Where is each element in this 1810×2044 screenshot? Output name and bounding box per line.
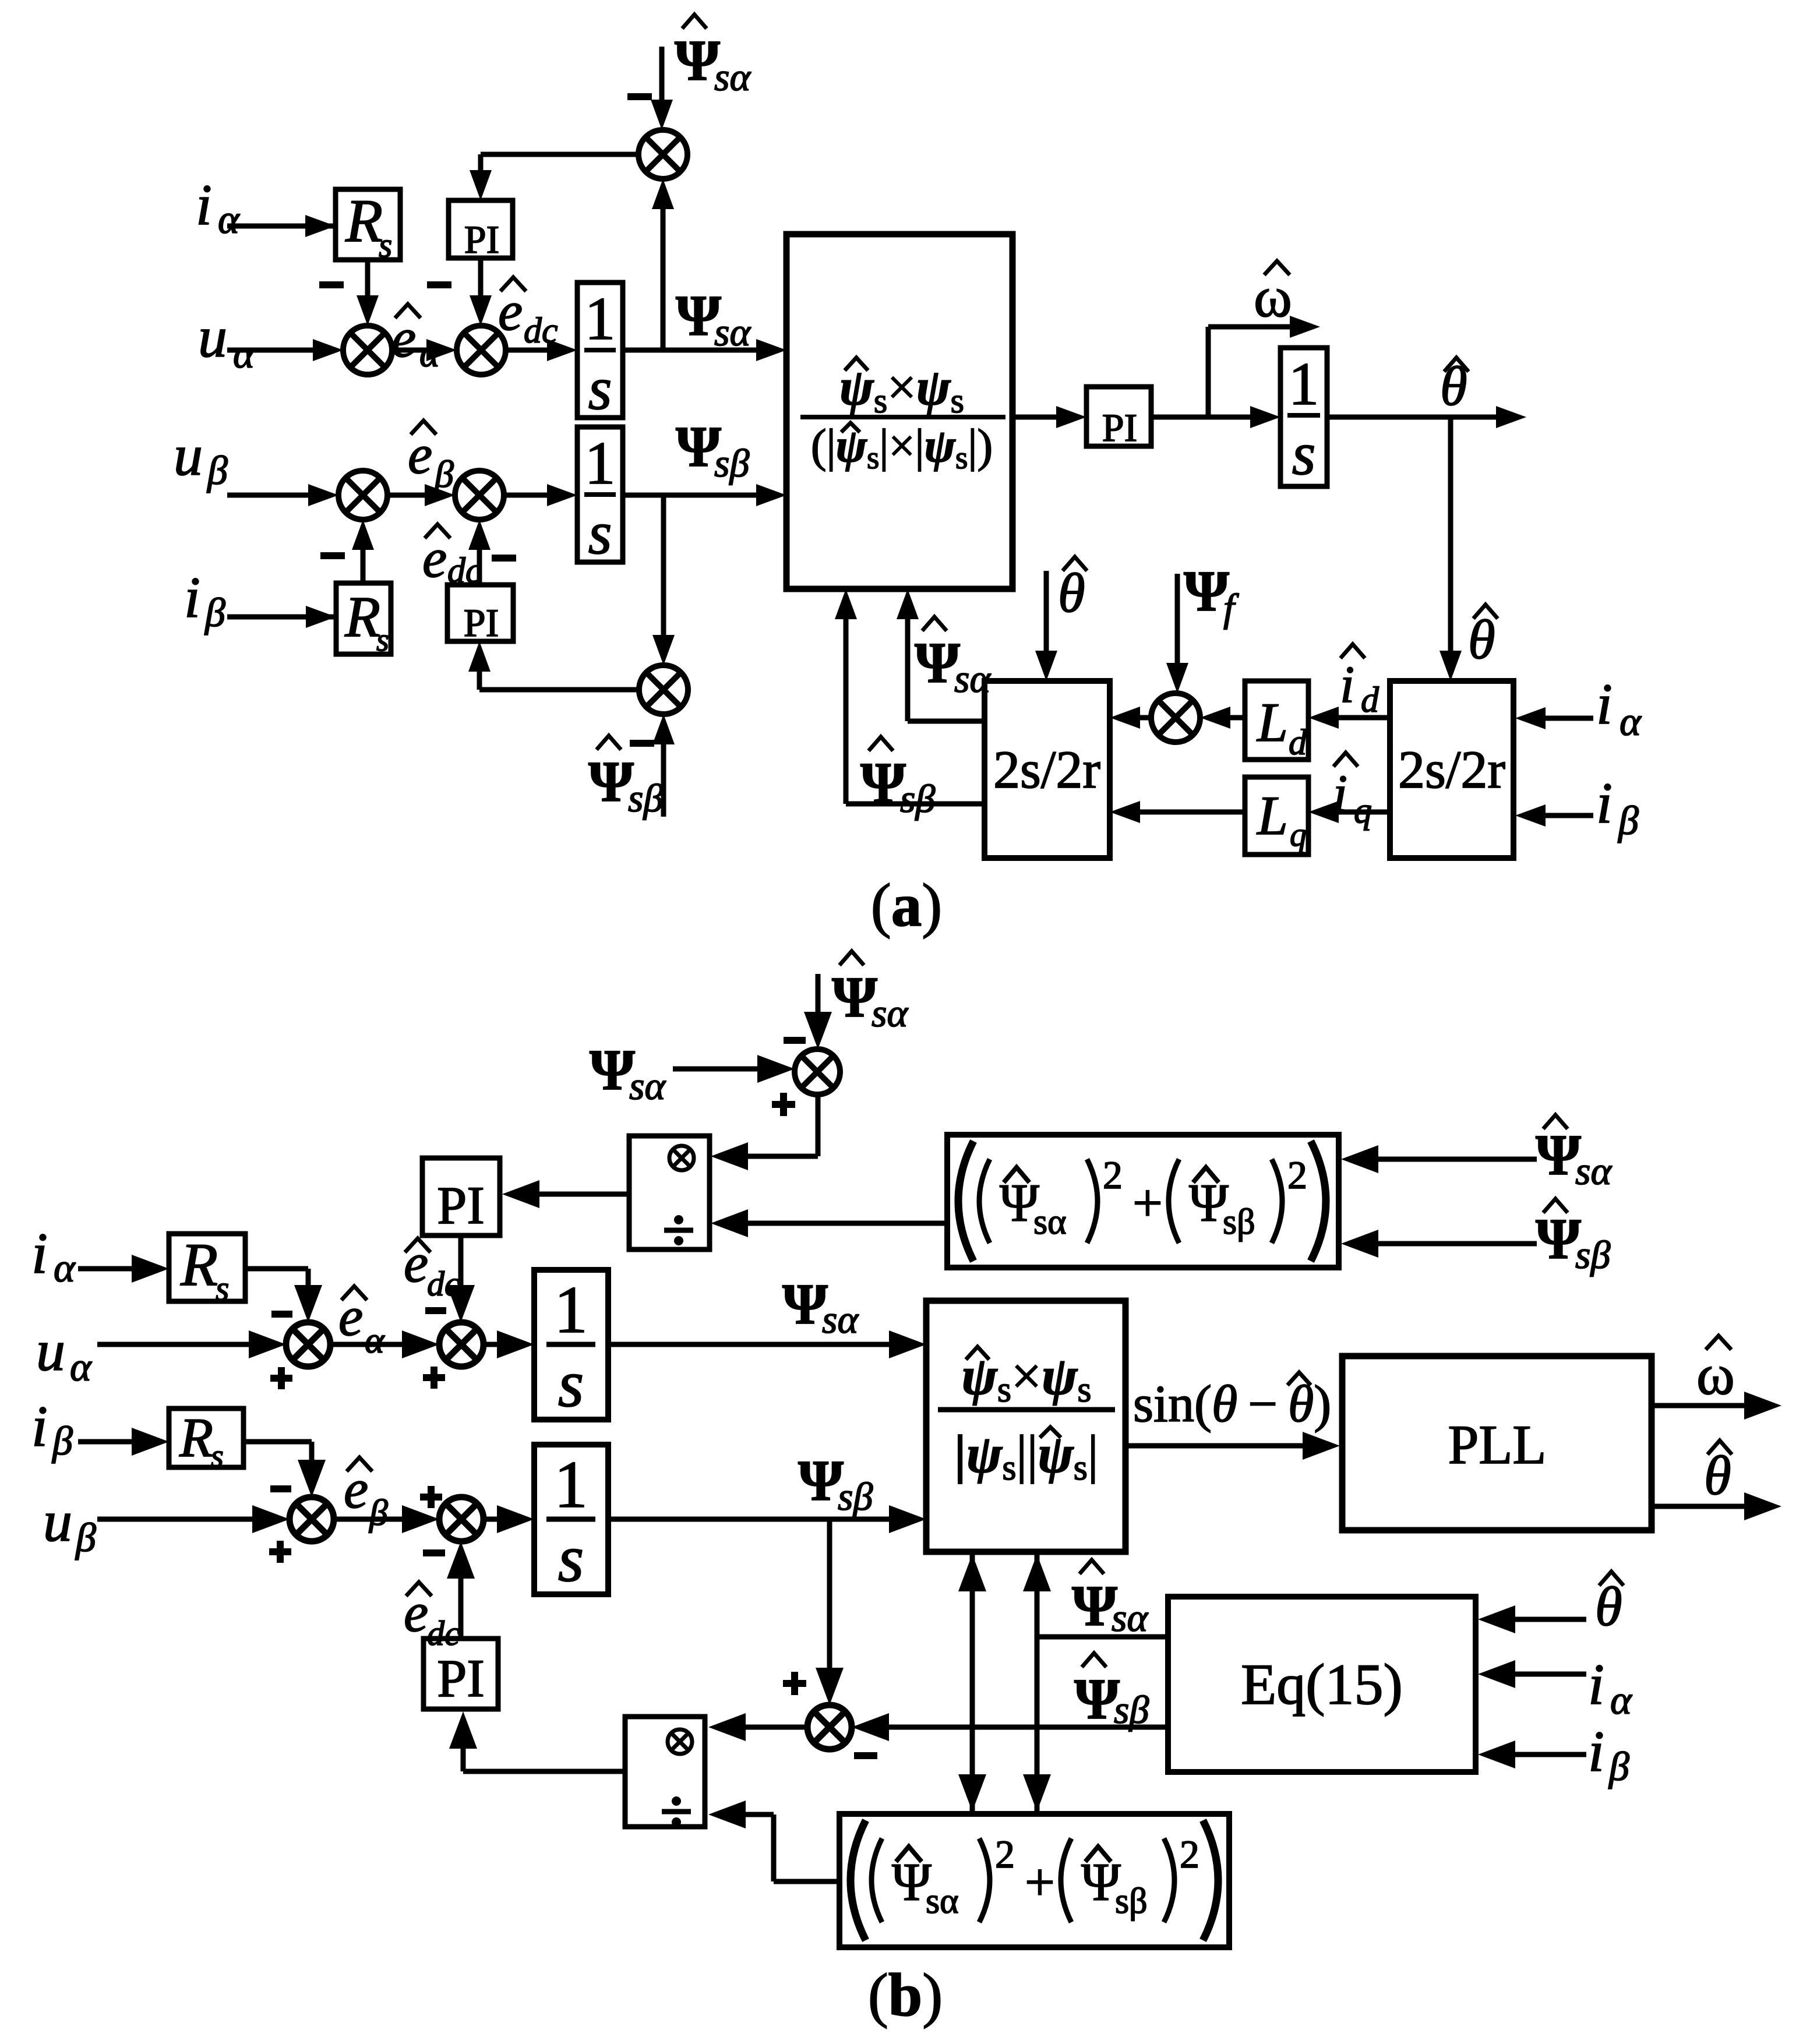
svg-text:i: i — [1596, 771, 1613, 835]
svg-text:1: 1 — [585, 284, 616, 352]
svg-text:Ψ: Ψ — [832, 965, 877, 1029]
svg-text:R: R — [344, 584, 380, 649]
block integrator 1/s (a,alpha) — [577, 283, 623, 418]
wire Rs3 right then down into S6, minus — [245, 1266, 308, 1272]
block PI1 (a) — [449, 200, 513, 258]
svg-text:i: i — [1588, 1652, 1604, 1717]
svg-text:α: α — [218, 197, 240, 242]
svg-text:i: i — [1596, 672, 1613, 736]
svg-text:sα: sα — [1575, 1149, 1612, 1193]
summing junction S1 (a) — [343, 326, 392, 375]
block integrator 1/s (a,theta) — [1280, 348, 1327, 486]
svg-text:Ψ: Ψ — [915, 630, 960, 695]
svg-text:β: β — [368, 1492, 388, 1533]
svg-text:sα: sα — [926, 1881, 959, 1921]
svg-text:α: α — [1620, 700, 1642, 744]
svg-text:α: α — [1610, 1678, 1632, 1723]
wire i_alpha into Eq(15) — [1513, 1672, 1586, 1677]
wire u_beta into S8, plus — [97, 1517, 257, 1522]
svg-text:θ: θ — [1468, 609, 1495, 670]
wire S2 to integrator 1/s (a,alpha) — [506, 348, 549, 353]
svg-text:PI: PI — [437, 1648, 485, 1708]
summing junction S9 (b) — [439, 1497, 484, 1541]
block magnitude squared sum (b top) — [947, 1135, 1339, 1268]
block PI (b top) — [422, 1158, 500, 1235]
svg-text:α: α — [233, 332, 255, 377]
node branch theta_hat down to 2s/2r — [1448, 417, 1453, 656]
wire psi_hat_s_alpha from left 2s/2r up into big block — [908, 719, 985, 724]
summing junction S3 (a) — [338, 471, 387, 520]
summing junction S4 (a) — [455, 471, 504, 520]
svg-text:d: d — [1361, 680, 1379, 720]
wire sin output to PLL — [1125, 1443, 1305, 1449]
wire i_beta into right 2s/2r — [1546, 813, 1593, 818]
node junction psi_s_beta down to S10, plus — [827, 1519, 832, 1669]
svg-text:Ψ: Ψ — [588, 749, 634, 814]
block Rs1 stator resistance — [336, 189, 400, 260]
block Rs2 stator resistance — [336, 583, 391, 654]
block integrator 1/s (b,alpha) — [534, 1270, 608, 1420]
svg-text:dc: dc — [427, 1614, 460, 1653]
svg-text:sβ: sβ — [714, 441, 749, 485]
block magnitude squared sum (b bottom) — [839, 1814, 1229, 1947]
block divider 2 (X over divide) — [625, 1717, 705, 1827]
svg-text:Ψ: Ψ — [1072, 1573, 1117, 1638]
svg-text:i: i — [196, 172, 212, 237]
wire psi_s_beta into flux comparator block (b) — [608, 1517, 892, 1522]
summing junction S10 (b) — [807, 1705, 852, 1749]
svg-text:2s/2r: 2s/2r — [1398, 740, 1505, 799]
node branch omega_hat, wire up and right — [1206, 327, 1211, 417]
svg-text:2: 2 — [1287, 1153, 1307, 1197]
block Ld inductance — [1245, 681, 1308, 760]
svg-text:PI: PI — [464, 217, 499, 262]
riser psi_hat_s_alpha double arrow (big block to sqrt2) — [1035, 1552, 1040, 1814]
svg-text:2: 2 — [995, 1832, 1015, 1876]
svg-text:+: + — [1025, 1852, 1055, 1912]
svg-text:q: q — [1290, 816, 1307, 853]
block Lq inductance — [1245, 777, 1308, 855]
svg-text:i: i — [1340, 656, 1354, 714]
wire S7 to integrator (b,alpha) — [484, 1342, 513, 1347]
wire S3 to S4 — [387, 493, 427, 498]
svg-text:Ψ: Ψ — [675, 28, 720, 93]
svg-text:ω: ω — [1254, 264, 1292, 329]
wire Rs2 up to S3, minus — [361, 544, 366, 583]
block Eq(15) — [1168, 1597, 1476, 1772]
svg-text:R: R — [180, 1230, 218, 1298]
riser psi_hat_s_beta double arrow (big block to sqrt2) — [970, 1552, 975, 1814]
svg-text:s: s — [588, 354, 612, 422]
wire psi_hat_s_alpha down into S5, minus — [816, 974, 821, 1014]
svg-text:1: 1 — [554, 1273, 588, 1347]
block Rs4 stator resistance (b) — [169, 1408, 244, 1467]
block Rs3 stator resistance (b) — [169, 1234, 245, 1301]
svg-text:i: i — [184, 565, 200, 630]
svg-text:sβ: sβ — [1575, 1233, 1610, 1277]
svg-text:s: s — [1292, 419, 1316, 488]
summing junction S5 (b) — [795, 1049, 840, 1095]
summing junction S8 (b) — [290, 1497, 334, 1541]
wire theta_hat down into left 2s/2r — [1044, 571, 1049, 656]
wire right 2s/2r to Ld — [1339, 715, 1390, 721]
wire psi_hat_s_alpha down into M1, minus — [659, 47, 665, 102]
svg-text:i: i — [31, 1221, 48, 1286]
wire u_alpha to sum S1 — [227, 348, 315, 353]
svg-text:α: α — [54, 1246, 76, 1291]
svg-text:d: d — [1289, 723, 1307, 762]
svg-text:sβ: sβ — [628, 776, 663, 820]
wire S9 to integrator (b,beta) — [484, 1517, 513, 1522]
svg-text:e: e — [338, 1286, 363, 1347]
svg-text:sα: sα — [954, 656, 991, 701]
svg-text:sβ: sβ — [1114, 1688, 1149, 1732]
summing junction S2 (a) — [457, 326, 506, 375]
wire right 2s/2r to Lq — [1339, 810, 1390, 815]
svg-text:β: β — [204, 591, 225, 636]
svg-text:L: L — [1256, 691, 1288, 753]
block PI3 speed regulator (a) — [1086, 387, 1151, 446]
block left 2s/2r transform (a) — [985, 681, 1110, 858]
wire psi_hat_s_beta up into M4, minus — [661, 739, 666, 817]
summing junction S7 (b), plus — [439, 1322, 484, 1367]
svg-text:β: β — [206, 449, 228, 493]
svg-text:ψs×ψs: ψs×ψs — [839, 359, 964, 420]
wire divider 2 output left and up into PI (b bottom) — [463, 1769, 625, 1774]
svg-text:sα: sα — [714, 55, 751, 99]
svg-text:PI: PI — [1102, 405, 1137, 450]
svg-text:α: α — [70, 1345, 92, 1390]
block integrator 1/s (a,beta) — [577, 427, 623, 562]
wire big block (a) to PI3 — [1012, 415, 1059, 420]
svg-text:+: + — [1132, 1173, 1163, 1233]
svg-text:dc: dc — [447, 551, 482, 591]
wire i_alpha to Rs3 — [78, 1266, 136, 1272]
svg-text:α: α — [365, 1319, 385, 1361]
wire S10 output into divider 2 X input — [746, 1725, 807, 1730]
svg-text:R: R — [345, 186, 383, 255]
svg-text:ω: ω — [1696, 1342, 1735, 1407]
wire PI (b top) down to S7, minus — [458, 1235, 464, 1287]
wire Eq15 psi_hat_s_beta output to S10 — [866, 1725, 1168, 1730]
svg-text:β: β — [75, 1516, 96, 1561]
wire psi_hat_s_alpha into sqrt1 (b) — [1376, 1157, 1537, 1162]
wire theta_hat output right (a) — [1327, 415, 1498, 420]
svg-text:Ψ: Ψ — [798, 1448, 844, 1513]
wire sqrt block 1 output to divider 1 divide input — [748, 1221, 947, 1226]
svg-text:1: 1 — [1289, 350, 1319, 418]
wire Lq to left 2s/2r — [1140, 810, 1245, 815]
svg-text:(a): (a) — [871, 871, 942, 939]
svg-text:1: 1 — [585, 429, 616, 497]
wire u_beta to sum S3 — [227, 493, 311, 498]
svg-text:s: s — [558, 1347, 584, 1421]
wire i_alpha into right 2s/2r — [1546, 716, 1593, 721]
wire S4 to integrator (a,beta) — [504, 493, 549, 498]
svg-text:2s/2r: 2s/2r — [993, 740, 1100, 799]
wire M1 output left then down to PI1 — [481, 152, 638, 157]
block flux cross-product normalizer (a) — [786, 234, 1012, 589]
wire S5 down and left into divider block X input — [816, 1095, 821, 1156]
svg-text:Ψ: Ψ — [782, 1272, 828, 1336]
svg-text:s: s — [376, 622, 389, 658]
summing junction S6 (b) — [286, 1322, 330, 1367]
svg-text:sα: sα — [1033, 1202, 1067, 1242]
wire S1 to S2 — [392, 348, 429, 353]
wire i_beta to Rs2 — [227, 615, 336, 620]
svg-text:Ψ: Ψ — [1184, 559, 1229, 623]
svg-text:1: 1 — [554, 1448, 588, 1521]
svg-text:Ψ: Ψ — [860, 750, 906, 815]
svg-text:dc: dc — [427, 1265, 460, 1303]
svg-text:s: s — [216, 1269, 229, 1308]
wire i_alpha to Rs1 — [227, 224, 336, 229]
svg-text:2: 2 — [1180, 1832, 1199, 1876]
node junction alpha, riser to multiplier M1 — [661, 203, 666, 350]
svg-text:sβ: sβ — [1115, 1881, 1148, 1921]
wire i_beta into Eq(15) — [1513, 1752, 1586, 1757]
wire into S10 right, minus — [852, 1713, 889, 1741]
svg-text:sβ: sβ — [1223, 1202, 1255, 1242]
svg-text:s: s — [588, 499, 612, 567]
wire S6 to S7 — [330, 1342, 408, 1347]
svg-text:β: β — [51, 1419, 73, 1464]
svg-text:Ψ: Ψ — [1536, 1206, 1581, 1271]
svg-text:Eq(15): Eq(15) — [1241, 1652, 1403, 1717]
svg-text:sα: sα — [822, 1297, 859, 1342]
wire Eq15 psi_hat_s_alpha output to riser — [1037, 1635, 1168, 1640]
svg-text:θ: θ — [1058, 562, 1085, 624]
svg-text:i: i — [1588, 1719, 1604, 1784]
wire divider 1 output to PI (b top) — [537, 1192, 629, 1197]
wire PI (b bottom) up into S9, minus — [458, 1576, 464, 1639]
wire PI1 down to S2, minus — [478, 258, 484, 297]
node junction beta, dropper to multiplier M4 — [661, 495, 666, 641]
wire M4 output left then up to PI2 — [479, 687, 639, 693]
wire PI3 to integrator 1/s (a,theta) — [1151, 415, 1252, 420]
block divider 1 (X over divide) — [629, 1136, 710, 1249]
multiplier M4 (a bottom) — [639, 665, 688, 714]
wire theta_hat into Eq(15) — [1513, 1617, 1586, 1622]
svg-text:sβ: sβ — [838, 1474, 873, 1519]
block integrator 1/s (b,beta) — [534, 1445, 608, 1594]
wire Rs1 down to sum S1, minus — [365, 260, 371, 297]
svg-text:PI: PI — [464, 601, 499, 645]
svg-text:R: R — [179, 1407, 213, 1468]
svg-text:u: u — [36, 1318, 65, 1383]
wire psi_s_alpha into flux comparator block (b) — [608, 1342, 892, 1347]
wire PI2 up to S4, minus — [477, 544, 482, 585]
svg-text:PI: PI — [437, 1175, 485, 1235]
svg-text:u: u — [43, 1489, 72, 1554]
svg-text:(b): (b) — [868, 1961, 943, 2029]
wire psi_hat_s_beta from left 2s/2r up into big block — [846, 802, 985, 807]
svg-text:u: u — [198, 305, 227, 369]
svg-text:sα: sα — [872, 991, 908, 1035]
formula fraction bar (a) — [800, 415, 1005, 419]
wire theta_hat output (b) — [1652, 1504, 1744, 1509]
svg-text:ψs×ψs: ψs×ψs — [961, 1346, 1091, 1410]
wire M3 to left 2s/2r — [1140, 715, 1151, 721]
svg-text:β: β — [1608, 1745, 1629, 1789]
svg-text:2: 2 — [1103, 1153, 1123, 1197]
svg-text:u: u — [174, 423, 203, 488]
svg-text:s: s — [379, 226, 392, 264]
wire sqrt2 output to divider 2 divide input — [774, 1879, 839, 1884]
svg-text:PLL: PLL — [1448, 1414, 1547, 1475]
svg-text:Ψ: Ψ — [1536, 1122, 1581, 1187]
block PI2 (a) — [447, 585, 513, 641]
svg-text:sα: sα — [629, 1064, 666, 1108]
wire Ld to multiplier M3 — [1230, 715, 1245, 721]
svg-text:Ψ: Ψ — [1074, 1667, 1120, 1731]
block PLL — [1342, 1356, 1652, 1530]
svg-text:Ψ: Ψ — [590, 1037, 635, 1102]
wire psi_hat_s_beta into sqrt1 (b) — [1376, 1241, 1537, 1247]
formula fraction bar (b) — [938, 1407, 1115, 1413]
wire Rs4 right then down into S8, minus — [244, 1439, 312, 1445]
svg-text:sin(θ − θ): sin(θ − θ) — [1133, 1375, 1331, 1433]
svg-text:e: e — [344, 1458, 368, 1520]
svg-text:sβ: sβ — [900, 776, 935, 821]
block flux cross-product comparator (b) — [926, 1301, 1125, 1552]
svg-text:sα: sα — [1112, 1595, 1148, 1640]
wire i_beta to Rs4 — [78, 1439, 136, 1445]
block PI (b bottom) — [424, 1639, 498, 1709]
svg-text:L: L — [1256, 785, 1288, 846]
svg-text:sα: sα — [714, 310, 751, 354]
multiplier M1 (a top) — [638, 130, 687, 179]
wire u_alpha into S6, plus — [97, 1342, 253, 1347]
wire psi_s_alpha into S5, plus — [673, 1067, 760, 1072]
wire S8 to S9, plus above — [334, 1517, 408, 1522]
wire integrator output psi_s_alpha to cross-product block — [623, 348, 758, 353]
multiplier M3 (a) — [1151, 693, 1200, 742]
block right 2s/2r transform (a) — [1390, 681, 1513, 858]
svg-text:s: s — [211, 1438, 224, 1474]
wire omega_hat output (b) — [1652, 1403, 1744, 1408]
svg-text:i: i — [31, 1394, 48, 1459]
wire integrator output psi_s_beta to cross-product block — [623, 493, 758, 498]
svg-text:s: s — [558, 1521, 584, 1595]
svg-text:β: β — [1617, 799, 1639, 843]
